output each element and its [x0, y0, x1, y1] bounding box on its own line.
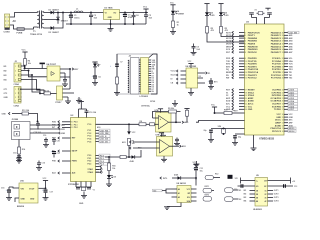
svg-text:12M: 12M [218, 126, 222, 128]
LED D5 [205, 12, 215, 26]
wire U1 output rail [120, 12, 149, 14]
resistor R8 input [139, 121, 150, 126]
U2 left pin 161 [52, 160, 77, 163]
U6 left pins [171, 70, 187, 85]
resistor R5 horizontal [37, 90, 57, 95]
svg-text:PA0/ADC0: PA0/ADC0 [271, 31, 282, 34]
crystal circuit X1 on U3 [249, 10, 272, 24]
svg-text:35: 35 [282, 46, 284, 48]
U7A output wire [169, 121, 182, 123]
svg-text:PD1/TXD: PD1/TXD [248, 61, 257, 63]
wire D6 column to MCU [221, 33, 244, 37]
svg-text:AGND: AGND [248, 100, 255, 103]
svg-text:X2: X2 [199, 76, 201, 78]
svg-text:PA3/ADC3: PA3/ADC3 [271, 40, 282, 43]
svg-text:PD2/INT0: PD2/INT0 [248, 64, 258, 66]
U7B power [159, 133, 164, 137]
U7B input wires [122, 141, 160, 149]
capacitor C5 104 [144, 13, 153, 25]
power flag (LED D6) [218, 4, 223, 13]
connector J2 [4, 61, 22, 86]
svg-text:U1 7805: U1 7805 [104, 8, 113, 10]
svg-text:VCC: VCC [78, 99, 83, 101]
svg-text:PD5/OC1A: PD5/OC1A [248, 71, 259, 74]
IC U10 power module body [17, 181, 38, 208]
svg-text:C19: C19 [43, 135, 46, 137]
svg-text:PD4/OC1B: PD4/OC1B [248, 68, 259, 71]
svg-text:U4 PC817: U4 PC817 [47, 63, 57, 66]
svg-text:10: 10 [71, 122, 73, 124]
IC U2 MCU body [68, 115, 96, 186]
svg-text:36: 36 [282, 43, 284, 45]
J5 right pin wires [30, 124, 66, 135]
diode D2 1N4007 (center tap) [47, 12, 69, 24]
svg-text:LED: LED [225, 15, 229, 17]
ground below C9 [191, 52, 197, 55]
optocoupler U4 body [47, 63, 61, 81]
svg-text:OUT2: OUT2 [274, 194, 279, 196]
svg-text:PB6/MISO: PB6/MISO [248, 49, 258, 51]
capacitor C22 22p [204, 130, 215, 143]
svg-text:P2.0: P2.0 [88, 155, 92, 157]
svg-text:P2.1: P2.1 [88, 158, 92, 160]
svg-text:VCC: VCC [226, 106, 231, 108]
svg-text:PC3/TMS: PC3/TMS [272, 66, 282, 68]
svg-text:15: 15 [245, 75, 247, 77]
U2 left pin RST [52, 137, 76, 140]
power flag above EEPROM [193, 162, 199, 167]
svg-text:PC0/SCL: PC0/SCL [272, 58, 282, 60]
svg-text:AREF: AREF [275, 122, 281, 125]
svg-text:P1.2: P1.2 [88, 133, 92, 135]
svg-text:GND: GND [108, 17, 113, 19]
net box U3 right row1 [288, 31, 299, 34]
fuse F1 [17, 28, 25, 35]
svg-text:VCC: VCC [289, 114, 294, 116]
U6 right pins [198, 72, 212, 83]
svg-text:FUSE: FUSE [17, 32, 23, 34]
svg-text:PB0/T0/XCK: PB0/T0/XCK [248, 32, 261, 34]
jumper K2 [203, 195, 212, 202]
svg-text:IN2: IN2 [4, 70, 7, 72]
svg-text:U7B: U7B [156, 134, 160, 136]
wire header top to cap [149, 54, 157, 94]
svg-text:1: 1 [15, 66, 16, 68]
label crystal [141, 101, 155, 108]
svg-text:19: 19 [245, 95, 247, 97]
LED D9 column [106, 175, 116, 187]
svg-text:1000u: 1000u [74, 17, 80, 19]
svg-text:C+: C+ [256, 180, 258, 182]
svg-text:LCD_D5: LCD_D5 [100, 141, 109, 143]
svg-text:CRYSTAL: CRYSTAL [141, 105, 151, 108]
svg-text:GND: GND [289, 117, 294, 119]
svg-text:PB2/AIN0: PB2/AIN0 [248, 37, 258, 40]
capacitor C2 104 [89, 13, 98, 25]
svg-text:IN3: IN3 [244, 197, 247, 199]
svg-text:CON3: CON3 [4, 32, 11, 34]
U7A input wires [153, 118, 159, 124]
svg-text:OC1B/PD4: OC1B/PD4 [270, 100, 281, 103]
svg-text:PA2/ADC2: PA2/ADC2 [271, 37, 282, 40]
U2 bottom pins + crystal [76, 182, 95, 206]
svg-text:17: 17 [282, 109, 284, 111]
jumper K1 [197, 186, 215, 193]
svg-text:11: 11 [71, 124, 73, 126]
svg-text:TDO: TDO [289, 69, 294, 71]
svg-text:7: 7 [245, 49, 246, 51]
svg-text:IN1: IN1 [4, 66, 7, 68]
U3 right pins with net labels [270, 31, 297, 133]
svg-text:GND: GND [248, 109, 253, 111]
U4 pins right [60, 68, 79, 79]
svg-text:VCC: VCC [143, 6, 148, 8]
svg-text:13: 13 [245, 69, 247, 71]
svg-text:PA4/ADC4: PA4/ADC4 [271, 43, 282, 46]
svg-text:LED: LED [211, 15, 215, 17]
svg-text:16: 16 [282, 114, 284, 116]
diode D1 1N4007 [49, 8, 64, 14]
svg-text:R12: R12 [215, 174, 218, 176]
svg-text:KEY: KEY [74, 69, 79, 71]
ground below U1 [108, 24, 114, 31]
U7B body [156, 134, 173, 156]
svg-text:PC5/TDI: PC5/TDI [273, 72, 281, 74]
svg-text:T1/PB1: T1/PB1 [274, 109, 282, 111]
svg-text:9: 9 [245, 58, 246, 60]
power above U6 [188, 61, 194, 68]
svg-text:J5 DB9: J5 DB9 [12, 119, 20, 121]
svg-text:PA6/ADC6: PA6/ADC6 [271, 48, 282, 51]
svg-text:PC1/SDA: PC1/SDA [272, 60, 282, 63]
svg-text:A0: A0 [178, 188, 180, 191]
resistor R3 470R [220, 27, 229, 34]
svg-text:P1.1: P1.1 [88, 130, 92, 132]
power flag VCC at C5 [143, 6, 149, 12]
junction dots opto bus [24, 65, 33, 76]
svg-text:XTAL1: XTAL1 [248, 91, 255, 94]
LED D6 [219, 12, 229, 26]
svg-text:1: 1 [245, 32, 246, 34]
svg-text:AD0: AD0 [97, 126, 101, 129]
U2 right pins group3 [88, 168, 104, 174]
svg-text:20: 20 [245, 98, 247, 100]
svg-text:XTAL1: XTAL1 [88, 168, 94, 171]
svg-text:AREF: AREF [248, 97, 254, 100]
J5 bottom resistor [18, 140, 27, 159]
capacitor C15 with ground [36, 161, 45, 171]
svg-text:RXD: RXD [52, 122, 57, 124]
svg-text:ICP1/PD6: ICP1/PD6 [272, 92, 282, 94]
svg-text:P1.5: P1.5 [88, 141, 92, 143]
wire J1 pin1 to top rail [10, 13, 34, 18]
capacitor C9 104 [192, 44, 201, 53]
svg-text:XTAL2: XTAL2 [248, 94, 255, 97]
svg-text:INT0: INT0 [226, 64, 230, 66]
svg-text:5: 5 [245, 43, 246, 45]
ground column x117 [114, 93, 120, 96]
svg-text:IN2: IN2 [244, 194, 247, 196]
U9 left pin2 [234, 184, 255, 191]
svg-text:AD1: AD1 [122, 141, 126, 144]
svg-text:6: 6 [245, 46, 246, 48]
svg-text:P1.3: P1.3 [88, 136, 92, 138]
svg-text:29: 29 [282, 66, 284, 68]
diode D10 with net [160, 174, 197, 186]
svg-text:39: 39 [282, 35, 284, 37]
svg-text:VCC: VCC [211, 104, 216, 106]
capacitor C6 polarized [92, 76, 102, 86]
wiring loop box [117, 54, 157, 94]
resistor R15 10k [108, 156, 117, 175]
svg-text:P3.2: P3.2 [74, 127, 78, 129]
net boxes U3 bottom right [288, 127, 296, 133]
svg-text:VCC: VCC [188, 61, 193, 63]
svg-text:P1.0: P1.0 [88, 124, 92, 126]
svg-text:OUT4: OUT4 [274, 200, 279, 203]
svg-text:BT1: BT1 [214, 81, 217, 83]
svg-text:22p: 22p [238, 137, 241, 139]
svg-text:A1: A1 [178, 192, 180, 195]
svg-text:SCK: SCK [226, 49, 231, 51]
svg-text:1: 1 [15, 89, 16, 91]
dark component near opto input [40, 63, 45, 69]
label AC [13, 20, 17, 23]
svg-text:VCC: VCC [277, 114, 282, 116]
svg-text:C13: C13 [294, 186, 297, 188]
power flag above U3 [265, 8, 270, 10]
svg-text:RESET: RESET [248, 90, 256, 92]
svg-text:OC1A/PD5: OC1A/PD5 [270, 97, 281, 100]
svg-text:12: 12 [282, 125, 284, 127]
svg-text:PA1/ADC1: PA1/ADC1 [271, 34, 282, 37]
svg-text:10: 10 [282, 131, 284, 133]
resistor on column x117 [116, 77, 119, 93]
svg-text:RW: RW [226, 78, 229, 80]
svg-text:PA7/ADC7: PA7/ADC7 [271, 51, 282, 54]
U7B ground [161, 156, 167, 162]
svg-text:MISO: MISO [226, 46, 231, 48]
svg-text:25: 25 [282, 78, 284, 80]
svg-text:IN4: IN4 [244, 200, 247, 203]
svg-text:OUT1: OUT1 [274, 190, 279, 192]
svg-text:2: 2 [15, 93, 16, 95]
svg-text:PD3/INT1: PD3/INT1 [248, 66, 258, 68]
U3 left pins with net labels [226, 31, 260, 111]
power flag +5V (power LED) [170, 2, 176, 10]
svg-text:22: 22 [282, 95, 284, 97]
wire U10 bottom left [15, 198, 19, 202]
svg-text:23: 23 [282, 92, 284, 94]
svg-text:LCD_EN: LCD_EN [289, 32, 298, 34]
capacitor C14 with ground [13, 151, 22, 163]
svg-text:P3.0: P3.0 [74, 122, 78, 124]
svg-text:KEY1: KEY1 [205, 186, 210, 188]
power flag (LED D5) [204, 4, 209, 13]
svg-text:GND: GND [21, 199, 26, 201]
resistor R6 vertical [128, 135, 136, 157]
wire fuse to transformer [24, 27, 33, 29]
transformer T1 TRAN-2P3S [30, 11, 49, 37]
svg-text:37: 37 [282, 41, 284, 43]
resistor R1 1k [172, 21, 181, 32]
capacitor C18 [34, 121, 42, 135]
svg-text:PD0/RXD: PD0/RXD [248, 58, 258, 60]
svg-text:R16: R16 [224, 110, 227, 112]
capacitor C4 104 [132, 13, 140, 25]
svg-text:P3.1: P3.1 [74, 124, 78, 126]
svg-text:VCC: VCC [170, 2, 175, 4]
svg-text:32768: 32768 [150, 101, 155, 103]
svg-text:4148: 4148 [174, 174, 178, 177]
svg-text:KEY2: KEY2 [205, 195, 210, 197]
svg-text:INT0: INT0 [163, 178, 167, 180]
diode D3 1N4007 [49, 13, 64, 35]
capacitor above U2 [85, 109, 97, 118]
svg-text:ATMEGA8535: ATMEGA8535 [259, 138, 275, 141]
svg-text:R9 20k: R9 20k [168, 108, 175, 110]
svg-text:32: 32 [282, 58, 284, 60]
svg-text:470: 470 [211, 29, 214, 32]
svg-text:PC4/TDO: PC4/TDO [272, 68, 281, 71]
svg-text:XTAL2: XTAL2 [88, 171, 94, 174]
U8 ground [164, 203, 181, 210]
power flag above U2 [78, 99, 87, 117]
U2 left pins group1 [52, 121, 77, 130]
svg-text:PA5/ADC5: PA5/ADC5 [271, 45, 282, 48]
capacitor C16 polarized [1, 187, 19, 200]
connector J3 [4, 87, 22, 108]
svg-text:4148: 4148 [130, 160, 134, 163]
IC U9 ULN2003 body [253, 175, 268, 211]
svg-text:AVCC: AVCC [275, 119, 281, 122]
capacitor C23 22p [232, 135, 241, 145]
svg-text:SCLK: SCLK [171, 75, 177, 77]
svg-text:VCC: VCC [22, 50, 27, 52]
svg-text:31: 31 [282, 61, 284, 63]
svg-text:LCD7: LCD7 [289, 109, 295, 111]
jumper K3 [225, 188, 242, 193]
svg-text:1N4007: 1N4007 [61, 19, 69, 22]
svg-text:D7: D7 [98, 64, 101, 66]
svg-text:POWER: POWER [177, 14, 185, 16]
resistor R2 470R [206, 27, 215, 34]
svg-text:PC6/TOS1: PC6/TOS1 [271, 75, 282, 77]
svg-text:11: 11 [245, 64, 247, 66]
U9 right small pins [268, 190, 279, 203]
svg-text:C7: C7 [120, 61, 122, 63]
wire rectifier output rail [62, 12, 103, 14]
svg-text:OT1: OT1 [4, 89, 8, 91]
svg-text:19: 19 [282, 103, 284, 105]
svg-text:33: 33 [282, 52, 284, 54]
capacitor right of U7B [174, 138, 180, 147]
svg-text:GND: GND [4, 97, 9, 99]
svg-text:PB4/SS: PB4/SS [248, 43, 256, 46]
U2 left pin 173 [52, 172, 76, 175]
svg-text:3: 3 [15, 97, 16, 99]
svg-text:R8: R8 [140, 121, 142, 123]
connector J4 white body [128, 54, 139, 94]
svg-text:IN3: IN3 [4, 75, 7, 77]
svg-text:12: 12 [71, 127, 73, 129]
svg-text:PD7/OC2: PD7/OC2 [272, 131, 282, 133]
svg-text:22: 22 [245, 103, 247, 105]
svg-text:PD7/OC2: PD7/OC2 [248, 78, 258, 80]
feedback resistor R9 [153, 108, 181, 122]
svg-text:C16: C16 [1, 187, 4, 189]
svg-text:A2: A2 [178, 196, 180, 199]
svg-text:+12: +12 [292, 181, 295, 183]
svg-text:PB1/T1: PB1/T1 [248, 35, 256, 37]
regulator U1 7805 [104, 8, 120, 24]
ground below U6 [188, 88, 194, 95]
U2 right pins group boxes2 [88, 154, 111, 166]
wire + resistor on DB9 top [12, 109, 38, 122]
svg-text:U8 24C02: U8 24C02 [177, 182, 187, 185]
svg-text:PD6/OC1A: PD6/OC1A [270, 127, 281, 130]
svg-text:TXD: TXD [61, 125, 66, 127]
op-amp U7A body [155, 109, 172, 132]
svg-text:12: 12 [245, 66, 247, 68]
svg-text:30: 30 [282, 64, 284, 66]
svg-text:D1 1N4007: D1 1N4007 [49, 8, 60, 11]
IC U3 ATMEGA8535 body [245, 22, 285, 141]
svg-text:10: 10 [245, 61, 247, 63]
svg-text:GND: GND [61, 133, 66, 135]
power flag VCC reset [211, 104, 217, 114]
ground lower left block [76, 97, 82, 103]
header JP1 LCD [139, 58, 156, 99]
connector J5 DB9 body [12, 119, 31, 139]
svg-text:PB5/MOSI: PB5/MOSI [248, 46, 258, 48]
resistor R16 10k reset [215, 110, 245, 115]
svg-text:TRAN-2P3S: TRAN-2P3S [30, 33, 43, 36]
diode on column x117 [110, 54, 123, 77]
svg-text:22p: 22p [204, 130, 207, 132]
svg-text:AVC: AVC [226, 102, 231, 105]
U2 left pin EA [52, 150, 78, 153]
wire R4 to opto pin [24, 65, 26, 68]
svg-text:8: 8 [245, 52, 246, 54]
capacitor C17 [39, 187, 53, 200]
svg-text:PC817: PC817 [56, 102, 62, 104]
svg-text:VCC: VCC [43, 178, 48, 180]
svg-text:VCC: VCC [193, 162, 198, 164]
svg-text:XCK/PB0: XCK/PB0 [272, 106, 282, 108]
small ground far right [194, 161, 200, 167]
wires J2 to opto bus [21, 66, 47, 90]
U9 right pin1 power [268, 178, 296, 184]
svg-text:21: 21 [245, 101, 247, 103]
svg-text:16: 16 [245, 78, 247, 80]
svg-text:2: 2 [245, 35, 246, 37]
capacitor C11 10u [193, 167, 204, 180]
ground below U3 [251, 135, 257, 151]
svg-text:TXD: TXD [226, 61, 230, 63]
svg-text:VCC2: VCC2 [171, 71, 176, 73]
opto U5 body (lower) [56, 86, 63, 104]
ground below R1 [170, 32, 176, 35]
svg-text:GND: GND [276, 117, 281, 119]
svg-text:OUT3: OUT3 [274, 197, 279, 199]
svg-text:C20: C20 [57, 140, 60, 142]
resistor R12 [205, 174, 233, 180]
svg-text:R13 104: R13 104 [22, 109, 30, 112]
svg-text:C18 104: C18 104 [34, 131, 42, 134]
bus continue down [32, 81, 40, 93]
LED D7 column [92, 62, 100, 76]
